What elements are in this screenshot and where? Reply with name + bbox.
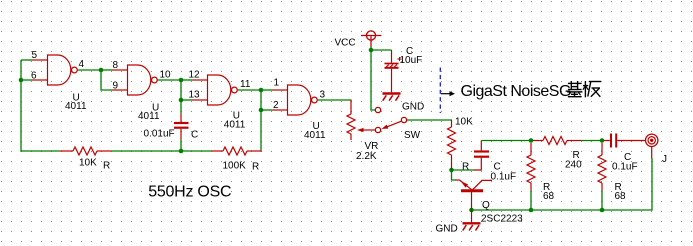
wire base to ground <box>471 210 473 223</box>
svg-text:10uF: 10uF <box>400 55 423 66</box>
wire left rail vertical <box>20 60 22 152</box>
wire 10K to 100K <box>111 150 212 152</box>
node R4 left <box>529 138 534 143</box>
NAND gate U 4011 (pins 1,2 out 3) <box>288 85 311 115</box>
node pin2 tap <box>259 108 264 113</box>
svg-text:13: 13 <box>189 90 201 101</box>
svg-text:4011: 4011 <box>304 130 326 141</box>
svg-text:2: 2 <box>273 100 279 111</box>
NAND gate U 4011 (pins 5,6 out 4) <box>48 55 71 85</box>
svg-text:12: 12 <box>189 70 201 81</box>
variable resistor VR 2.2K <box>347 114 355 134</box>
svg-text:10: 10 <box>160 70 172 81</box>
svg-text:4011: 4011 <box>224 120 246 131</box>
svg-text:R: R <box>462 162 469 173</box>
svg-text:GND: GND <box>436 224 458 235</box>
node pin12 tap <box>179 78 184 83</box>
wire gate1 output <box>78 69 101 71</box>
switch SW pole <box>401 117 406 122</box>
svg-text:R: R <box>103 161 110 172</box>
svg-text:6: 6 <box>31 71 37 82</box>
node R5 bottom rail <box>529 208 534 213</box>
resistor R6 68 <box>598 155 606 183</box>
node VCC junction <box>369 48 374 53</box>
NAND gate U 4011 (pins 8,9 out 10) <box>128 65 151 95</box>
node pin8/9 split <box>99 68 104 73</box>
svg-text:10K: 10K <box>79 158 97 169</box>
resistor R4 240 <box>543 137 567 145</box>
wire R5 68 bottom <box>530 191 532 211</box>
svg-text:VCC: VCC <box>335 38 356 49</box>
node R6 bottom rail <box>600 208 605 213</box>
svg-text:GigaSt NoiseSG: GigaSt NoiseSG <box>461 83 571 100</box>
dashed boundary line <box>439 68 441 114</box>
transistor Q 2SC2223 emitter <box>455 179 460 181</box>
capacitor C4 0.1uF <box>604 140 610 142</box>
arrow to GigaSt board <box>441 93 451 95</box>
svg-text:2.2K: 2.2K <box>356 151 377 162</box>
svg-text:C: C <box>191 130 198 141</box>
svg-text:J: J <box>662 154 667 165</box>
wire VCC to cap C1 <box>371 49 392 51</box>
wire down to pin2 and 100K <box>260 90 262 152</box>
resistor R1 10K <box>73 147 97 155</box>
wire to pin1 <box>261 89 273 91</box>
svg-text:4011: 4011 <box>138 111 160 122</box>
svg-text:1: 1 <box>274 78 280 89</box>
svg-text:4: 4 <box>79 59 85 70</box>
svg-text:9: 9 <box>113 81 119 92</box>
svg-text:0.1uF: 0.1uF <box>612 162 638 173</box>
ground symbol under C1 <box>383 92 401 94</box>
ground symbol under Q <box>463 222 481 224</box>
wire to pin9 <box>101 70 113 90</box>
svg-text:0.1uF: 0.1uF <box>491 171 517 182</box>
switch SW lever <box>386 121 402 127</box>
svg-text:100K: 100K <box>223 161 247 172</box>
resistor R2 100K <box>223 147 247 155</box>
jack J output <box>646 134 658 146</box>
wire to pin6 <box>21 79 33 81</box>
switch SW throw to VR wiper <box>375 127 380 132</box>
VCC power symbol <box>366 31 375 40</box>
node transistor base / gnd <box>469 208 474 213</box>
wire node A to emitter <box>452 170 456 180</box>
node R4 right <box>600 138 605 143</box>
svg-text:240: 240 <box>565 160 582 171</box>
resistor R3 10K <box>448 127 456 155</box>
wire to pin13 <box>181 99 193 101</box>
svg-text:SW: SW <box>404 130 421 141</box>
wire bottom rail <box>472 209 653 211</box>
wire cap C2 bottom <box>180 139 182 151</box>
wire R4 to C4 <box>582 140 603 142</box>
node pin1 tap <box>259 88 264 93</box>
node cap C2 bottom <box>179 149 184 154</box>
wire SW pole to R3 10K <box>407 119 453 121</box>
node pin6 tap <box>19 78 24 83</box>
wire to pin2 <box>261 109 273 111</box>
svg-text:68: 68 <box>615 191 627 202</box>
VR wiper arrow <box>363 129 376 131</box>
node pin13 tap <box>179 98 184 103</box>
svg-text:10K: 10K <box>455 117 473 128</box>
transistor Q collector <box>473 180 493 189</box>
svg-text:2SC2223: 2SC2223 <box>481 213 523 224</box>
wire C3 top to R4 240 <box>481 140 531 142</box>
svg-text:550Hz OSC: 550Hz OSC <box>148 184 231 201</box>
switch SW throw to VCC rail <box>375 107 380 112</box>
transistor Q bar <box>461 189 483 192</box>
wire gate2 output <box>158 79 181 81</box>
capacitor C2 0.01uF <box>174 122 189 124</box>
svg-text:5: 5 <box>32 50 38 61</box>
transistor Q base lead <box>471 192 473 210</box>
svg-text:GND: GND <box>402 101 424 112</box>
wire gate3 output <box>238 89 261 91</box>
svg-text:4011: 4011 <box>65 101 87 112</box>
svg-text:8: 8 <box>113 60 119 71</box>
wire node A to C3 bottom <box>452 169 475 171</box>
resistor R5 68 <box>527 155 535 183</box>
wire to pin12 <box>181 79 193 81</box>
svg-text:68: 68 <box>543 191 555 202</box>
wire to pin5 <box>21 59 33 61</box>
svg-text:Q: Q <box>482 200 490 211</box>
svg-text:0.01uF: 0.01uF <box>144 129 175 140</box>
wire R6 68 bottom <box>601 191 603 211</box>
svg-text:3: 3 <box>320 89 326 100</box>
wire bottom left <box>20 150 60 152</box>
wire down to pin13 and C2 <box>180 80 182 114</box>
svg-text:R: R <box>252 162 259 173</box>
svg-text:11: 11 <box>240 79 251 90</box>
wire to pin8 <box>101 69 113 71</box>
wire jack sleeve down <box>651 158 653 211</box>
capacitor C3 0.1uF <box>474 150 489 152</box>
wire gate4 output to VR <box>318 99 352 101</box>
wire VCC rail down to SW throw <box>371 46 375 110</box>
NAND gate U 4011 (pins 12,13 out 11) <box>208 75 231 105</box>
node A R3 bottom <box>449 168 454 173</box>
capacitor C1 10uF electrolytic <box>391 50 393 63</box>
